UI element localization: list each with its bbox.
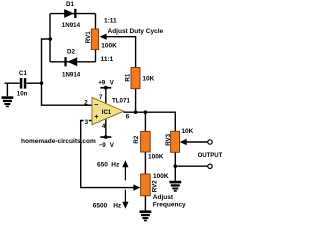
svg-text:C1: C1	[19, 70, 27, 77]
svg-text:6: 6	[126, 113, 130, 120]
svg-text:1N914: 1N914	[62, 22, 81, 29]
svg-text:R1: R1	[125, 73, 132, 81]
svg-text:OUTPUT: OUTPUT	[198, 153, 223, 159]
svg-text:Adjust: Adjust	[153, 194, 174, 201]
svg-text:100K: 100K	[101, 43, 117, 50]
svg-text:−9: −9	[99, 142, 107, 149]
svg-text:Hz: Hz	[111, 161, 120, 168]
svg-text:+: +	[94, 114, 98, 121]
svg-text:Hz: Hz	[113, 203, 122, 210]
svg-text:11:1: 11:1	[101, 56, 114, 63]
svg-text:D1: D1	[66, 1, 74, 8]
svg-text:2: 2	[84, 99, 88, 106]
svg-text:TL071: TL071	[112, 97, 130, 104]
svg-text:10n: 10n	[17, 90, 28, 97]
svg-text:RV3: RV3	[165, 133, 172, 145]
svg-text:RV2: RV2	[152, 180, 159, 192]
svg-text:homemade-circuits.com: homemade-circuits.com	[21, 138, 96, 145]
svg-text:10K: 10K	[181, 128, 193, 135]
svg-text:IC1: IC1	[102, 110, 112, 116]
svg-text:650: 650	[97, 161, 108, 168]
svg-text:−: −	[94, 102, 98, 109]
svg-text:4: 4	[102, 123, 106, 130]
svg-text:1:11: 1:11	[104, 17, 117, 24]
svg-text:3: 3	[85, 119, 89, 126]
svg-text:RV1: RV1	[85, 31, 92, 43]
svg-text:1N914: 1N914	[62, 71, 81, 78]
svg-text:6500: 6500	[93, 203, 108, 210]
svg-text:7: 7	[99, 94, 103, 101]
svg-text:Frequency: Frequency	[153, 201, 186, 208]
svg-text:D2: D2	[67, 48, 75, 55]
svg-text:Adjust Duty Cycle: Adjust Duty Cycle	[108, 28, 164, 35]
svg-text:10K: 10K	[142, 76, 154, 83]
svg-text:100K: 100K	[148, 153, 164, 160]
svg-text:+9: +9	[98, 79, 106, 86]
svg-text:R2: R2	[133, 135, 140, 143]
svg-text:100K: 100K	[153, 173, 169, 180]
